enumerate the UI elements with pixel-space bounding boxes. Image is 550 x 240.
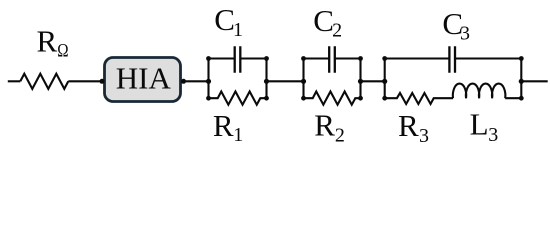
resistor R2 bottom rail xyxy=(304,92,361,105)
svg-text:L: L xyxy=(470,107,489,142)
node dot HIA right pin xyxy=(181,79,186,84)
resistor R1 bottom rail xyxy=(209,92,267,105)
node dot HIA left pin xyxy=(100,79,105,84)
node dot net2 mid-left xyxy=(301,79,306,84)
network 1 right vertical xyxy=(265,59,267,99)
svg-text:1: 1 xyxy=(233,124,243,146)
svg-text:R: R xyxy=(213,108,234,143)
svg-text:HIA: HIA xyxy=(116,60,172,95)
node dot net3 bottom-left xyxy=(382,96,387,101)
capacitor C3 top rail left xyxy=(385,57,450,59)
node dot net3 mid-right xyxy=(519,79,524,84)
network 3 left vertical xyxy=(384,59,386,99)
network 2 left vertical xyxy=(302,59,304,99)
inductor L3 xyxy=(453,84,506,99)
svg-text:R: R xyxy=(37,24,58,59)
network 2 right vertical xyxy=(359,59,361,99)
capacitor C1 top rail right xyxy=(240,57,266,59)
capacitor C2 plates xyxy=(329,46,335,73)
wire left input stub xyxy=(8,80,20,82)
svg-text:1: 1 xyxy=(233,19,243,41)
svg-text:R: R xyxy=(314,108,335,143)
wire output stub xyxy=(521,80,547,82)
capacitor C2 top rail left xyxy=(304,57,330,59)
capacitor C3 top rail right xyxy=(455,57,521,59)
wire node A to node B xyxy=(267,80,304,82)
node dot net1 top-right xyxy=(264,56,269,61)
wire resistor to HIA box xyxy=(68,80,103,82)
node dot net1 bottom-right xyxy=(264,96,269,101)
node dot net1 top-left xyxy=(206,56,211,61)
node dot net1 mid-right xyxy=(264,79,269,84)
node dot net3 top-right xyxy=(519,56,524,61)
wire inductor to right vertical xyxy=(505,97,521,99)
svg-text:3: 3 xyxy=(488,124,498,146)
op-amp U1 HIA block body xyxy=(105,58,181,102)
svg-text:Ω: Ω xyxy=(57,40,68,61)
node dot net3 mid-left xyxy=(382,79,387,84)
svg-text:2: 2 xyxy=(335,125,345,147)
node dot net1 bottom-left xyxy=(206,96,211,101)
capacitor C2 top rail right xyxy=(335,57,361,59)
network 3 right vertical xyxy=(520,59,522,99)
node dot net1 mid-left xyxy=(206,79,211,84)
resistor R_omega xyxy=(20,74,68,89)
node dot net2 bottom-right xyxy=(358,96,363,101)
node dot net2 top-right xyxy=(358,56,363,61)
node dot net3 top-left xyxy=(382,56,387,61)
capacitor C1 plates xyxy=(235,46,241,73)
node dot net2 bottom-left xyxy=(301,96,306,101)
node dot net2 mid-right xyxy=(358,79,363,84)
node dot net2 top-left xyxy=(301,56,306,61)
svg-text:2: 2 xyxy=(332,19,342,41)
wire HIA box to node A xyxy=(182,80,209,82)
network 1 left vertical xyxy=(207,59,209,99)
svg-text:3: 3 xyxy=(419,125,429,147)
resistor R3 bottom rail xyxy=(385,93,453,104)
node dot net3 bottom-right xyxy=(519,96,524,101)
svg-text:R: R xyxy=(398,108,419,143)
svg-text:3: 3 xyxy=(460,23,470,45)
wire node B to node C xyxy=(361,80,385,82)
capacitor C1 top rail left xyxy=(209,57,235,59)
svg-text:C: C xyxy=(214,2,235,37)
svg-text:C: C xyxy=(313,3,334,38)
capacitor C3 plates xyxy=(449,46,455,73)
